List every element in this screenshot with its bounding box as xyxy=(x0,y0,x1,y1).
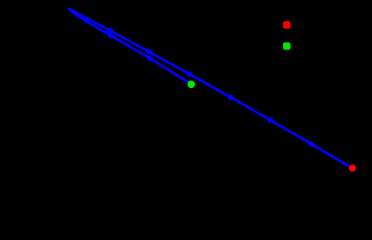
node: diamond markers line 1 xyxy=(107,27,315,147)
node: green end dot xyxy=(187,81,195,89)
wire: overlap filler at bundle start xyxy=(70,10,87,21)
node: diamond markers line 2 xyxy=(107,32,154,62)
legend green marker xyxy=(283,42,290,49)
node: red end dot xyxy=(349,165,356,172)
wire: blue convergence path 2 (ends at green dot) xyxy=(69,9,191,84)
legend red marker xyxy=(283,21,290,28)
wire: blue convergence path 1 (ends at red dot) xyxy=(69,9,352,169)
